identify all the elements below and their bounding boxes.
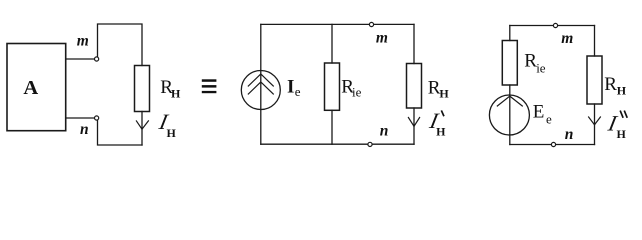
wire n to RH bottom: [98, 120, 143, 145]
wire middle branch bottom: [331, 110, 333, 144]
wire right branch bottom with current arrow: [594, 104, 596, 145]
wire middle branch top: [331, 24, 333, 63]
current arrow I'H: [408, 118, 419, 127]
wire A to terminal n: [66, 117, 95, 119]
resistor Rie (right circuit): [502, 41, 517, 86]
EMF source Ee: [489, 95, 529, 135]
terminal m (middle circuit): [369, 22, 373, 26]
middle circuit top rail: [261, 23, 414, 25]
wire right branch top: [413, 24, 415, 63]
wire A to terminal m: [66, 58, 95, 60]
middle circuit bottom rail: [261, 143, 414, 145]
wire right branch top: [594, 26, 596, 57]
resistor RH (left circuit): [135, 66, 150, 112]
wire Rie to Ee: [509, 85, 511, 95]
svg-text:n: n: [80, 121, 89, 138]
svg-text:H: H: [439, 86, 449, 100]
svg-text:e: e: [546, 112, 552, 127]
terminal m (right circuit): [553, 23, 557, 27]
wire m to RH top: [98, 24, 143, 66]
resistor RH (middle circuit): [407, 64, 422, 109]
svg-text:R: R: [604, 74, 617, 95]
svg-text:e: e: [295, 84, 301, 99]
terminal n (left circuit): [95, 116, 99, 120]
svg-text:H: H: [617, 84, 627, 98]
resistor Rie (middle circuit): [325, 63, 340, 110]
equivalence symbol: [202, 79, 217, 93]
wire left branch bottom: [260, 110, 262, 145]
network box A: [7, 44, 66, 131]
svg-text:n: n: [380, 123, 389, 140]
wire right branch bottom with current arrow: [413, 108, 415, 144]
svg-text:H: H: [436, 125, 446, 139]
svg-text:E: E: [533, 101, 545, 122]
svg-text:n: n: [565, 126, 574, 143]
svg-text:ie: ie: [352, 85, 362, 100]
terminal n (right circuit): [551, 142, 555, 146]
svg-text:m: m: [561, 30, 573, 47]
terminal m (left circuit): [95, 57, 99, 61]
current arrow I''H: [589, 117, 601, 125]
svg-text:H: H: [171, 86, 181, 100]
current source Ie: [241, 71, 280, 110]
resistor RH (right circuit): [587, 56, 602, 104]
right circuit bottom rail: [510, 144, 595, 146]
svg-text:m: m: [77, 33, 89, 50]
svg-text:H: H: [167, 126, 177, 140]
svg-text:A: A: [23, 77, 38, 99]
wire RH bottom with current arrow IH: [141, 112, 143, 146]
right circuit top rail: [510, 25, 595, 27]
wire Ee to bottom rail: [509, 135, 511, 145]
terminal n (middle circuit): [368, 142, 372, 146]
svg-text:H: H: [617, 127, 627, 141]
current arrow IH: [136, 121, 148, 129]
svg-text:ie: ie: [536, 61, 546, 76]
wire left branch top: [260, 24, 262, 70]
svg-text:m: m: [376, 29, 388, 46]
svg-text:I: I: [287, 77, 294, 98]
wire left branch to Rie: [509, 26, 511, 41]
